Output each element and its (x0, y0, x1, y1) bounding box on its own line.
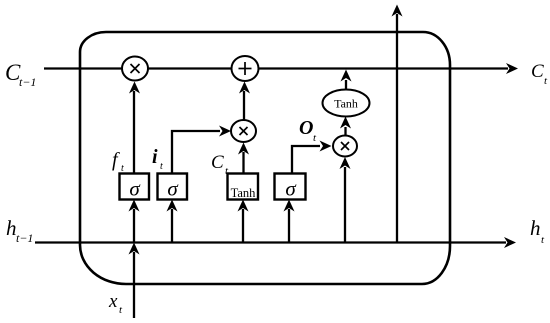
svg-text:σ: σ (285, 177, 297, 201)
svg-text:h: h (6, 216, 17, 240)
svg-text:x: x (108, 291, 118, 312)
svg-text:Tanh: Tanh (231, 186, 257, 200)
svg-text:σ: σ (167, 177, 179, 201)
svg-text:i: i (152, 146, 158, 168)
svg-text:t: t (160, 161, 163, 172)
svg-text:h: h (530, 216, 541, 240)
svg-text:t−1: t−1 (16, 231, 33, 245)
svg-text:O: O (299, 117, 313, 139)
svg-text:t: t (121, 163, 124, 174)
svg-text:C: C (211, 152, 224, 173)
svg-text:C: C (531, 61, 544, 82)
svg-text:t−1: t−1 (19, 75, 36, 89)
svg-text:σ: σ (129, 177, 141, 201)
svg-text:Tanh: Tanh (334, 97, 358, 111)
